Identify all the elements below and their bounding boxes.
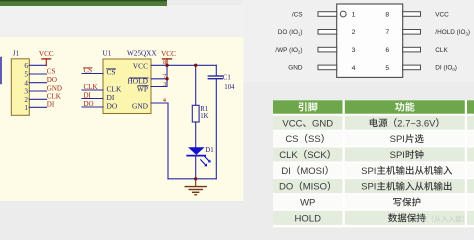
svg-text:VCC: VCC [161, 50, 176, 58]
svg-text:DO: DO [279, 182, 293, 193]
svg-text:): ) [455, 65, 457, 72]
power VCC symbol at U1 pin 8 [161, 50, 176, 65]
table header row [273, 100, 343, 113]
header 引脚 [299, 102, 307, 111]
svg-text:SPI: SPI [361, 182, 376, 193]
capacitor C1 104 [208, 65, 235, 179]
light area behind pinout [243, 0, 474, 82]
svg-text:6: 6 [385, 47, 389, 54]
pinout left stub pin 2 [318, 30, 337, 35]
svg-text:CLK: CLK [279, 150, 298, 161]
svg-text:HOLD: HOLD [295, 213, 322, 224]
svg-text:U1: U1 [103, 50, 112, 58]
table row DI [273, 163, 474, 177]
svg-text:MISO: MISO [303, 182, 327, 193]
wire: pin 7 stub [151, 78, 167, 80]
svg-text:VCC: VCC [282, 118, 302, 129]
svg-text:DO: DO [107, 101, 118, 110]
pinout left stub pin 3 [318, 47, 337, 52]
svg-text:2.7~3.6V: 2.7~3.6V [397, 118, 436, 129]
svg-text:J1: J1 [13, 50, 20, 58]
light band top-left [0, 5, 272, 37]
svg-text:GND: GND [288, 65, 303, 72]
svg-text:): ) [300, 47, 302, 54]
net label CS (U1) [84, 67, 93, 75]
watermark [413, 216, 420, 222]
svg-text:1: 1 [352, 11, 356, 18]
svg-text:1K: 1K [200, 113, 208, 120]
svg-text:DI: DI [47, 101, 55, 109]
svg-text:GND: GND [132, 101, 149, 110]
svg-text:4: 4 [352, 65, 356, 72]
svg-text:GND: GND [47, 84, 62, 92]
schematic cream panel [0, 37, 244, 201]
svg-text:SCK: SCK [307, 150, 327, 161]
table row CS [273, 132, 474, 146]
svg-text:CLK: CLK [84, 83, 98, 91]
wire: GND down leg [167, 103, 169, 179]
svg-text:CLK: CLK [47, 93, 61, 101]
table row WP [273, 195, 474, 209]
svg-text:DO: DO [84, 100, 94, 108]
svg-text:104: 104 [224, 84, 235, 91]
svg-text:DO: DO [47, 76, 57, 84]
svg-text:SPI: SPI [390, 134, 405, 145]
table row HOLD [273, 211, 474, 225]
wire: R1 to D1 [195, 122, 197, 147]
svg-text:2: 2 [24, 96, 28, 104]
svg-text:SS: SS [308, 134, 321, 145]
wire: cropped left-edge wire [0, 58, 2, 84]
green title bar [0, 0, 167, 6]
ground symbol [185, 179, 206, 195]
svg-text:SPI: SPI [361, 166, 376, 177]
svg-text:SPI: SPI [390, 150, 405, 161]
junction dots [165, 64, 197, 181]
pinout right stub pin 7 [403, 30, 421, 35]
svg-text:DO (IO: DO (IO [278, 29, 298, 36]
svg-text:/CS: /CS [292, 11, 303, 18]
wire: D1 to rail [195, 156, 197, 178]
pinout right stub pin 6 [403, 47, 421, 52]
svg-text:/HOLD (IO: /HOLD (IO [435, 29, 465, 36]
svg-text:CLK: CLK [435, 47, 448, 54]
IC pinout package body [337, 4, 403, 77]
svg-text:8: 8 [385, 11, 389, 18]
svg-text:D1: D1 [205, 147, 213, 154]
svg-text:): ) [300, 29, 302, 36]
svg-text:WP: WP [300, 198, 315, 209]
pinout left stub pin 1 [318, 12, 337, 17]
wire: R1 branch from VCC rail [195, 65, 197, 105]
pinout left stub pin 4 [318, 65, 337, 70]
svg-text:3: 3 [24, 88, 28, 96]
IC U1 W25QXX [103, 50, 158, 114]
svg-text:DI: DI [281, 166, 291, 177]
svg-text:5: 5 [385, 65, 389, 72]
svg-text:DI: DI [84, 92, 92, 100]
svg-text:5: 5 [24, 71, 28, 79]
svg-text:VCC: VCC [39, 50, 54, 58]
svg-text:C1: C1 [223, 75, 231, 82]
svg-text:CS: CS [285, 134, 298, 145]
svg-text:): ) [468, 29, 470, 36]
svg-text:W25QXX: W25QXX [127, 50, 157, 58]
header 功能 [395, 102, 404, 111]
resistor R1 1K [192, 105, 208, 122]
svg-text:VCC: VCC [133, 62, 148, 71]
table row CLK [273, 147, 474, 161]
svg-text:6: 6 [24, 62, 28, 70]
svg-text:/WP (IO: /WP (IO [275, 47, 298, 54]
svg-text:1: 1 [24, 104, 28, 112]
wire: J1 pin stubs [29, 65, 46, 107]
table row VCC/GND [273, 116, 474, 130]
wire: pin 3 stub [151, 86, 167, 88]
pinout right stub pin 5 [403, 65, 421, 70]
pinout right stub pin 8 [403, 12, 421, 17]
svg-text:2: 2 [352, 29, 356, 36]
table backing [273, 100, 474, 227]
svg-text:DI (IO: DI (IO [435, 65, 452, 72]
wire: VCC rail from pin 8 to C1 [151, 64, 216, 66]
svg-text:GND: GND [312, 118, 333, 129]
pin 1 indicator circle [340, 11, 346, 17]
wire: bottom ground rail [168, 178, 216, 180]
svg-text:CS: CS [47, 67, 56, 75]
wire: HOLD/WP tie to VCC [166, 65, 168, 86]
power VCC symbol at J1 [39, 50, 54, 65]
LED D1 [187, 147, 213, 167]
table row DO [273, 179, 474, 193]
svg-text:MOSI: MOSI [300, 166, 324, 177]
svg-text:7: 7 [385, 29, 389, 36]
wire: pin 4 GND stub [151, 102, 168, 104]
svg-text:3: 3 [352, 47, 356, 54]
wire: U1 left pin stubs [82, 74, 103, 108]
connector J1 [11, 50, 29, 116]
svg-text:VCC: VCC [435, 11, 449, 18]
svg-text:4: 4 [24, 79, 28, 87]
